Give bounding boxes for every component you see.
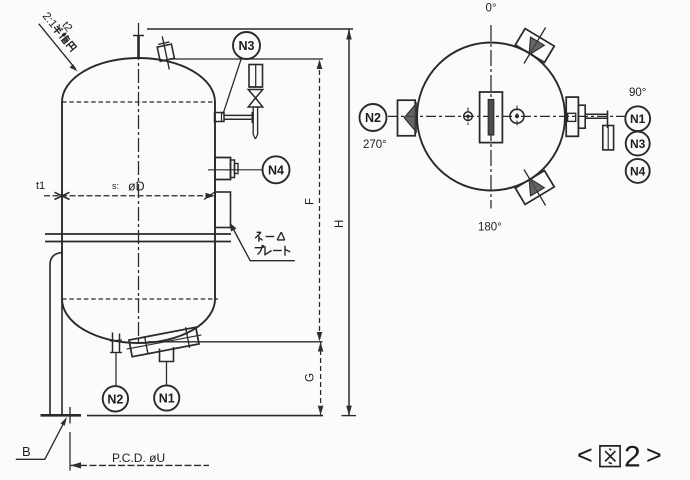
N1 lower stub: [160, 347, 174, 362]
90 deg valve stem: [607, 111, 609, 129]
label H (rotated): [334, 220, 346, 228]
dimension G line: [320, 342, 322, 415]
nozzle at 270 deg (flange): [398, 100, 416, 136]
support band: [45, 233, 231, 235]
nozzle N2 bottom pipe: [112, 333, 114, 353]
top head (2:1 ellipse): [62, 58, 215, 102]
svg-text:P.C.D. øU: P.C.D. øU: [112, 451, 165, 465]
svg-text:t1: t1: [36, 180, 45, 192]
N4 axis line: [208, 169, 263, 171]
vessel centerline: [138, 23, 140, 345]
base plate center tick: [69, 407, 71, 424]
dimension P.C.D. line: [71, 464, 210, 466]
svg-text:<: <: [577, 440, 593, 470]
label nameplate katakana ne-mu: [255, 232, 285, 242]
H line bottom tick: [342, 415, 357, 417]
kanji 半楕円 (rotated label): [51, 23, 77, 52]
diagonal nozzle upper-right flange: [509, 19, 560, 73]
F top extension line: [170, 58, 323, 60]
nozzle N4: [215, 158, 231, 180]
N3 instrument cylinder: [249, 65, 263, 88]
svg-text:N3: N3: [239, 39, 255, 53]
svg-text:N4: N4: [268, 163, 284, 177]
N3 pipe tee bar: [252, 112, 254, 123]
N1 axis extension to G line: [148, 341, 323, 343]
plan horizontal centerline: [388, 115, 625, 117]
svg-text:s:: s:: [112, 181, 119, 191]
svg-text:N4: N4: [630, 164, 646, 178]
svg-text:270°: 270°: [363, 139, 387, 151]
90 deg pipe: [585, 113, 607, 115]
svg-text:N3: N3: [630, 137, 646, 151]
label 2:1 semi-ellipse leader arrow: [39, 24, 76, 69]
svg-text:90°: 90°: [629, 87, 646, 99]
balloon N4 (plan): [626, 159, 650, 183]
ground line: [87, 415, 323, 417]
svg-text:N1: N1: [159, 392, 175, 406]
balloon N1: [154, 385, 179, 410]
leader N3: [223, 58, 242, 114]
N2 bottom nozzle projection (small circle): [464, 112, 473, 121]
balloon N4: [263, 156, 290, 183]
svg-text:H: H: [334, 220, 346, 228]
dimension F line: [319, 62, 321, 342]
top tangent line: [62, 101, 215, 103]
N1 bottom nozzle projection (circle): [510, 109, 524, 123]
vessel shell left wall: [61, 102, 63, 299]
label nameplate katakana pure-to: [255, 246, 291, 256]
diagonal nozzle upper-right cone: [529, 37, 544, 55]
center manhole inner bar: [488, 100, 494, 136]
svg-text:N1: N1: [630, 112, 646, 126]
label G (rotated): [305, 373, 317, 382]
plan vertical centerline: [490, 25, 492, 209]
nozzle N1 bottom (slanted): [125, 325, 204, 360]
bottom head: [62, 299, 215, 343]
B leader: [16, 422, 65, 460]
balloon N3 (plan): [626, 132, 650, 156]
nozzle at 90 deg flange stack: [566, 97, 578, 136]
balloon N2: [103, 386, 128, 411]
N3 vertical pipe: [252, 108, 254, 135]
leader N2: [115, 353, 117, 387]
svg-text:N2: N2: [107, 392, 123, 406]
bottom tangent line: [62, 298, 218, 300]
vessel shell right wall: [214, 102, 216, 299]
balloon N2 (plan): [360, 104, 387, 131]
dimension H line: [348, 29, 350, 416]
svg-text:F: F: [305, 198, 317, 205]
svg-text:N2: N2: [365, 111, 381, 125]
plan view shell circle: [417, 43, 565, 191]
90 deg instrument: [603, 126, 614, 150]
left leg: [50, 253, 62, 416]
label F (rotated): [305, 198, 317, 205]
svg-text:øD: øD: [128, 180, 145, 194]
center manhole rect: [480, 92, 503, 143]
diagonal nozzle lower-right cone: [529, 178, 544, 196]
diagonal nozzle lower-right flange: [509, 161, 560, 215]
svg-text:180°: 180°: [478, 222, 502, 234]
nozzle at 270 deg cone: [404, 104, 416, 133]
name plate leader: [234, 230, 295, 261]
caption kanji zu: [600, 446, 620, 467]
svg-text:B: B: [22, 444, 31, 459]
H top extension line: [147, 28, 353, 30]
label 2:1 and t2 (rotated): [40, 4, 75, 40]
balloon N3: [233, 32, 260, 59]
N3 valve: [248, 90, 263, 99]
balloon N1 (plan): [625, 106, 650, 131]
nozzle N3 stub on shell: [215, 113, 225, 122]
top head small nozzle: [155, 35, 176, 71]
leader N1: [166, 362, 168, 386]
top center vent pipe: [137, 36, 140, 59]
svg-text:G: G: [305, 373, 317, 382]
svg-text:>: >: [646, 440, 662, 470]
base plate: [41, 414, 82, 417]
centerline tick: [133, 35, 144, 37]
svg-text:0°: 0°: [486, 3, 497, 15]
N3 horizontal pipe: [224, 114, 253, 116]
name plate: [215, 192, 231, 228]
dimension line oD: [44, 195, 215, 197]
svg-text:2: 2: [624, 441, 641, 474]
P.C.D. extension line: [69, 432, 71, 471]
